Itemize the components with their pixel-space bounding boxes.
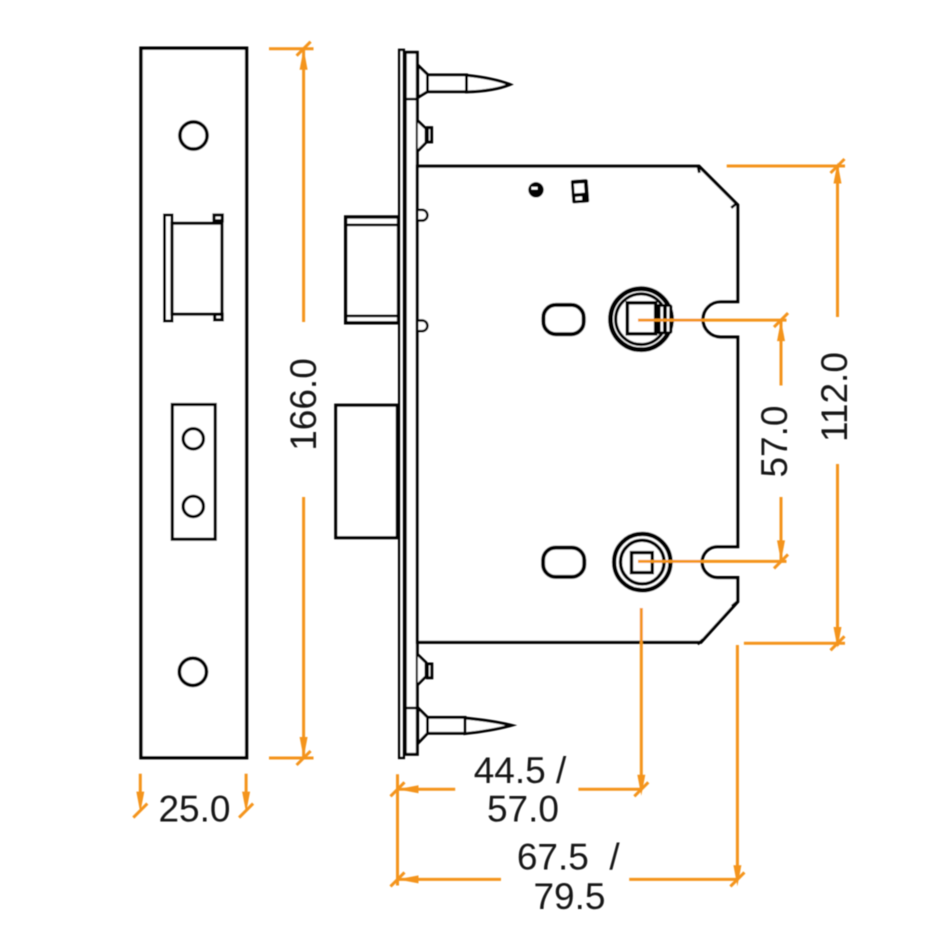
latch tab top: [214, 215, 222, 221]
svg-text:67.5 /: 67.5 /: [517, 836, 621, 877]
svg-text:57.0: 57.0: [754, 405, 795, 477]
stamped dot: [528, 182, 543, 197]
oval hole lower: [543, 548, 584, 577]
bottom screw hole: [179, 658, 206, 685]
latch pivot bump upper: [419, 210, 428, 221]
dimension 25.0: [133, 774, 253, 818]
rivet bottom: [418, 655, 432, 685]
latch face box: [172, 223, 222, 314]
latch bolt side view: [344, 217, 398, 323]
fixing screw bottom: [418, 708, 512, 743]
rivet top: [418, 121, 432, 151]
keep hole lower: [183, 496, 203, 516]
dimension 166.0: [269, 42, 314, 765]
svg-text:166.0: 166.0: [283, 358, 324, 451]
svg-text:44.5 /: 44.5 /: [474, 750, 567, 791]
bathroom turn follower lower: [614, 534, 670, 590]
follower centreline vertical: [634, 608, 648, 796]
faceplate front view: [141, 48, 247, 758]
latch tab bottom: [215, 314, 223, 320]
keep plate: [172, 405, 215, 540]
svg-text:79.5: 79.5: [533, 876, 605, 917]
faceplate side view: [399, 50, 404, 758]
latch retainer strip: [165, 215, 173, 321]
dimension 57.0: [638, 313, 788, 568]
dimension 44.5 / 57.0: [391, 774, 642, 885]
corner glitch bottom of top chamfer: [731, 203, 736, 207]
corner glitch top-left of chamfer: [698, 166, 700, 173]
dimension 67.5 / 79.5: [391, 645, 745, 886]
top screw hole: [180, 122, 207, 149]
corner glitch top of bottom chamfer: [732, 602, 737, 607]
svg-text:25.0: 25.0: [158, 789, 230, 830]
keep hole upper: [183, 429, 203, 449]
svg-text:57.0: 57.0: [487, 788, 559, 829]
spindle follower upper: [611, 289, 673, 350]
stamped mark: [571, 179, 590, 204]
dimension 112.0: [727, 159, 845, 650]
fixing screw top: [418, 65, 510, 97]
oval hole upper: [543, 305, 583, 334]
svg-text:112.0: 112.0: [814, 352, 855, 442]
corner glitch left of bottom chamfer: [698, 640, 703, 645]
lock case outline: [417, 166, 737, 642]
deadbolt side view: [336, 405, 398, 538]
latch pivot bump lower: [419, 320, 428, 331]
forend plate side view: [404, 52, 418, 754]
